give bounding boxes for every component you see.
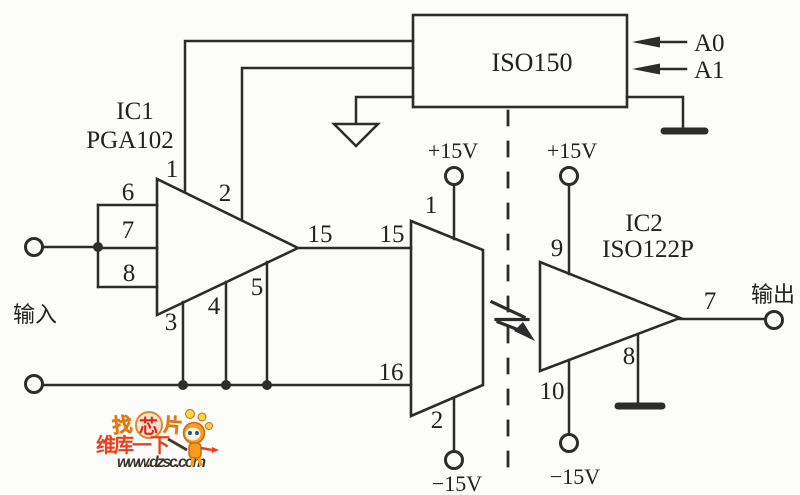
svg-text:1: 1 (425, 192, 438, 219)
svg-text:8: 8 (123, 260, 136, 287)
svg-text:PGA102: PGA102 (86, 127, 174, 154)
svg-text:−15V: −15V (550, 464, 600, 489)
svg-text:15: 15 (380, 221, 405, 248)
pin 4 wire (225, 282, 228, 385)
wire from ISO150 left to PGA102 pin 1 (185, 41, 413, 191)
svg-text:+15V: +15V (428, 138, 478, 163)
junction pin5/rail (262, 380, 272, 390)
svg-text:5: 5 (251, 274, 264, 301)
svg-text:2: 2 (431, 407, 444, 434)
ground (open triangle) below ISO150 (334, 124, 378, 146)
pin 10 wire (568, 360, 571, 434)
optical coupling arrow (lightning bolt) (492, 302, 535, 341)
wire input to pin 7 (43, 246, 98, 249)
svg-text:9: 9 (551, 235, 564, 262)
svg-text:A1: A1 (694, 57, 725, 84)
svg-text:片: 片 (163, 413, 184, 438)
pin 3 wire (182, 302, 185, 385)
ground (bar) right of ISO150 (664, 128, 705, 135)
junction node at bracket (93, 242, 103, 252)
svg-text:A0: A0 (694, 30, 725, 57)
junction pin3/rail (178, 380, 188, 390)
svg-text:7: 7 (704, 288, 717, 315)
svg-text:3: 3 (165, 309, 178, 336)
IC U3 ISO150 box (413, 15, 627, 107)
pin 5 wire (266, 262, 269, 385)
pin 2 wire (isolator) (453, 398, 456, 451)
wire from ISO150 left to PGA102 pin 2 (242, 68, 413, 220)
svg-text:7: 7 (122, 217, 135, 244)
svg-text:输出: 输出 (751, 282, 795, 307)
input A1 arrow (632, 57, 725, 84)
+15V terminal (IC2) (561, 168, 578, 185)
svg-text:6: 6 (122, 179, 135, 206)
wire PGA102 output pin 15 to isolation stage (298, 247, 411, 250)
svg-text:1: 1 (166, 156, 179, 183)
op-amp IC2 ISO122P triangle (540, 262, 680, 371)
op-amp IC1 PGA102 triangle (157, 179, 298, 315)
wire from ISO150 to left ground (356, 97, 413, 123)
svg-text:16: 16 (379, 359, 404, 386)
svg-text:ISO150: ISO150 (492, 48, 573, 77)
wire ISO150 right to ground (627, 97, 683, 128)
ground (bar) IC2 pin 8 (618, 403, 662, 410)
mascot (184, 410, 220, 467)
svg-text:8: 8 (623, 343, 636, 370)
output terminal (766, 312, 783, 329)
input terminal (top) (26, 239, 43, 256)
svg-text:2: 2 (219, 180, 232, 207)
input terminal (bottom) (26, 376, 43, 393)
-15V terminal (IC2) (561, 435, 578, 452)
gain-select bracket wire (pins 6,7,8) (98, 205, 157, 287)
svg-text:IC2: IC2 (625, 210, 663, 237)
isolation barrier dashed line (507, 111, 510, 468)
svg-text:ISO122P: ISO122P (602, 236, 694, 263)
svg-text:10: 10 (540, 378, 565, 405)
input A0 arrow (632, 30, 725, 57)
isolation amplifier input-side trapezoid (411, 221, 483, 416)
pin 9 wire (568, 185, 571, 274)
svg-text:输入: 输入 (13, 302, 57, 327)
junction pin4/rail (221, 380, 231, 390)
pin 8 wire (637, 334, 640, 404)
watermark logo 维库一下 www.dzsc.com (96, 410, 219, 472)
svg-text:15: 15 (308, 221, 333, 248)
wire IC2 output pin 7 (680, 318, 765, 321)
svg-text:IC1: IC1 (116, 98, 154, 125)
svg-text:4: 4 (208, 293, 221, 320)
svg-text:−15V: −15V (432, 471, 482, 495)
svg-text:+15V: +15V (547, 138, 597, 163)
-15V terminal (isolator) (446, 452, 463, 469)
pin 1 wire (isolator) (453, 185, 456, 239)
bottom common rail wire (43, 384, 411, 387)
+15V terminal (isolator) (446, 168, 463, 185)
